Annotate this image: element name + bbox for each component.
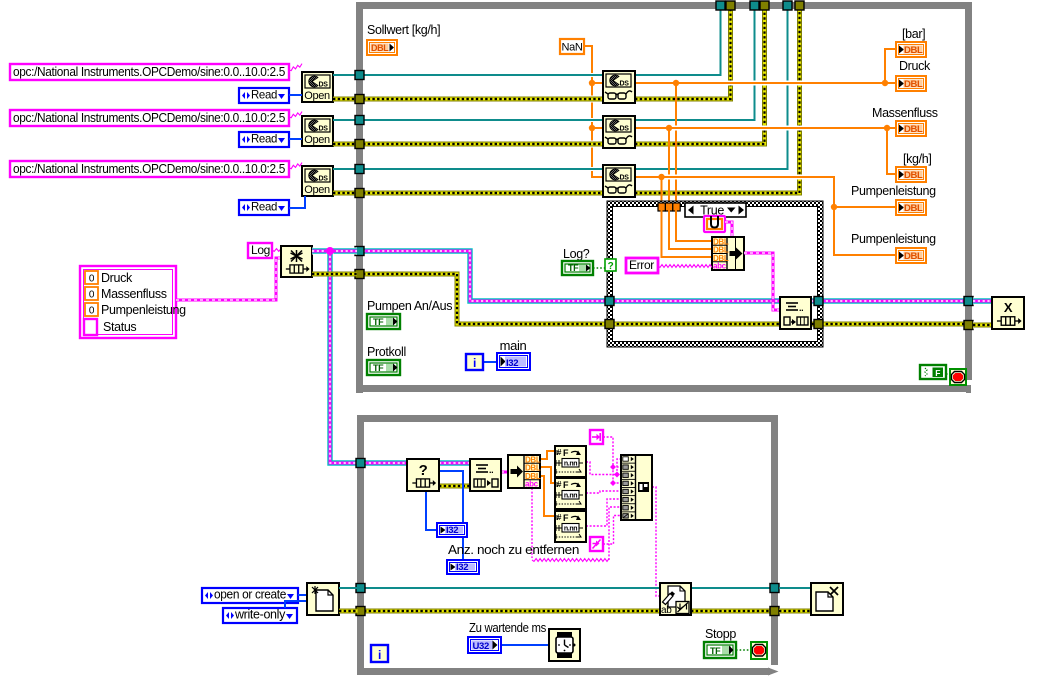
svg-text:ab: ab — [661, 605, 672, 616]
svg-text:opc:/National Instruments.OPCD: opc:/National Instruments.OPCDemo/sine:0… — [13, 111, 285, 125]
wire format3 output to concat — [586, 499, 621, 526]
unbundle by name node — [508, 455, 540, 488]
svg-text:..: .. — [799, 303, 803, 313]
svg-text:Druck: Druck — [899, 59, 931, 73]
svg-text:n.nn: n.nn — [564, 526, 577, 533]
svg-text:Protkoll: Protkoll — [367, 345, 406, 359]
svg-text:U32: U32 — [473, 641, 489, 652]
wire U constant to format node — [725, 222, 732, 237]
wire teal row C to top tunnel — [635, 9, 788, 169]
wire queue status count to I32 Anz — [439, 471, 463, 560]
case structure border — [607, 201, 823, 347]
enum constant Read1 — [239, 88, 289, 103]
svg-text:F: F — [935, 368, 940, 378]
tunnel loop1 left error from obtain queue — [355, 270, 364, 279]
iteration terminal i loop2 — [371, 645, 388, 662]
enqueue element node — [780, 297, 811, 329]
wire iteration i to main — [483, 361, 497, 363]
wire unbundle DBL1 to format1 — [540, 451, 555, 459]
cluster constant (Druck/Massenfluss/Pumpenleistung/Status) — [80, 266, 176, 338]
string constant Log — [248, 243, 272, 258]
wait ms node (clock) — [549, 629, 580, 661]
TF control Log? — [562, 261, 593, 275]
tunnel loop1 left queue — [355, 247, 364, 256]
tunnel loop1 top teal 1 — [716, 1, 725, 10]
svg-text:open or create: open or create — [214, 588, 286, 602]
DBL indicator Pumpenleistung 2 — [896, 248, 926, 263]
wire open file error to loop2 — [339, 609, 358, 614]
svg-text:I32: I32 — [446, 525, 458, 536]
end of line constant — [590, 430, 603, 444]
enum constant Read3 — [239, 200, 289, 215]
wire cluster constant to obtain queue — [176, 258, 281, 300]
svg-text:DBL: DBL — [904, 251, 923, 262]
tunnel loop2 right file refnum — [770, 584, 779, 593]
svg-text:F: F — [563, 448, 569, 458]
svg-text:Log: Log — [251, 243, 270, 257]
format into string node (DBL DBL DBL abc) — [712, 237, 744, 270]
svg-text:Pumpenleistung: Pumpenleistung — [851, 184, 936, 198]
svg-text:0: 0 — [89, 306, 95, 317]
svg-text:n.nn: n.nn — [564, 493, 577, 500]
svg-text:Anz. noch zu entfernen: Anz. noch zu entfernen — [448, 543, 579, 557]
constant NaN — [560, 39, 584, 54]
DBL indicator [bar] — [896, 42, 926, 57]
svg-text:Read: Read — [251, 200, 277, 214]
concatenate strings node — [621, 455, 652, 520]
enum constant open or create — [202, 588, 298, 603]
queue wire inside loop1 to case structure — [363, 251, 609, 301]
TF control Protkoll — [367, 360, 400, 375]
svg-text:abc: abc — [713, 262, 727, 271]
release queue node — [992, 297, 1024, 329]
tunnel loop2 right error — [770, 607, 779, 616]
svg-text:DBL: DBL — [904, 45, 923, 56]
string constant Error — [626, 258, 658, 273]
svg-text:?: ? — [419, 462, 428, 479]
wire format1 output to concat — [586, 462, 621, 475]
tunnel loop1 top error 1 — [726, 1, 735, 10]
svg-text:DBL: DBL — [904, 79, 923, 90]
svg-text:[bar]: [bar] — [902, 27, 925, 41]
svg-text:main: main — [500, 338, 527, 353]
DBL indicator Druck — [896, 76, 926, 91]
svg-text:Massenfluss: Massenfluss — [101, 287, 167, 301]
write to text file node — [660, 583, 691, 615]
svg-text:Stopp: Stopp — [705, 627, 736, 641]
svg-text:Pumpenleistung: Pumpenleistung — [851, 232, 936, 246]
tunnel loop2 left queue — [356, 459, 365, 468]
string constant URL3 opc sine — [10, 161, 289, 177]
format string constant U — [704, 216, 725, 232]
svg-text:opc:/National Instruments.OPCD: opc:/National Instruments.OPCDemo/sine:0… — [13, 65, 285, 79]
case selector ? tunnel — [605, 259, 616, 271]
wire EOL constant to concat inputs — [603, 437, 613, 483]
svg-text:Open: Open — [304, 134, 330, 146]
wire Log? to case selector — [593, 267, 605, 269]
wire Read2 to O2 — [289, 138, 302, 140]
svg-text:..: .. — [489, 465, 493, 475]
svg-text:DS: DS — [319, 126, 329, 133]
queue wire obtain queue to loop1 and down to loop2 — [312, 248, 357, 255]
DataSocket Read node R2 — [603, 116, 635, 148]
error wire case to loop right tunnel — [821, 322, 968, 327]
open/create/replace file node — [307, 583, 339, 615]
wire teal row B to top tunnel — [635, 9, 755, 120]
tunnel loop1 left teal row B — [355, 116, 364, 125]
queue status node (?) — [407, 459, 439, 491]
svg-text:Pumpenleistung: Pumpenleistung — [101, 303, 186, 317]
wire NaN constant to DS Read default inputs — [584, 46, 603, 177]
svg-text:DS: DS — [620, 175, 630, 182]
tunnel loop1 top error 2 — [760, 1, 769, 10]
number to fractional string node F2 — [555, 478, 586, 509]
error wire inside loop1 to case structure — [363, 274, 609, 324]
tunnel loop1 left teal row C — [355, 165, 364, 174]
queue wire case to loop right tunnel — [821, 298, 968, 305]
wire O3 error out — [333, 191, 357, 196]
wire URL1 to O1 (squiggle) — [289, 64, 302, 71]
svg-text:Sollwert [kg/h]: Sollwert [kg/h] — [367, 23, 440, 37]
wire URL3 to O3 (squiggle) — [289, 163, 302, 169]
wire open or create to open file node — [298, 594, 307, 596]
wire loop2 right tunnels to close file — [779, 587, 811, 589]
loop stop terminal (red stop sign) — [950, 369, 966, 385]
tunnel loop2 left file refnum — [356, 584, 365, 593]
svg-text:i: i — [378, 648, 381, 662]
wire error row A inside loop — [585, 96, 603, 103]
string constant URL1 opc sine — [10, 64, 289, 80]
I32 indicator main — [497, 353, 530, 370]
wire O3 connection out (teal) — [333, 168, 357, 170]
wire format node output to enqueue — [744, 253, 780, 310]
DataSocket Open node O2 — [302, 116, 333, 146]
wire unbundle DBL3 to format3 — [540, 476, 555, 516]
svg-text:DS: DS — [620, 81, 630, 88]
wire O2 error out — [333, 142, 357, 147]
svg-text:0: 0 — [89, 274, 95, 285]
svg-text:X: X — [1004, 300, 1013, 315]
wire concat output to write file — [652, 487, 660, 596]
wire teal connection row A inside loop — [585, 73, 603, 77]
wire O2 connection out (teal) — [333, 119, 357, 121]
tunnel loop1 left error row A — [355, 95, 364, 104]
DataSocket Read node R3 — [603, 165, 635, 197]
wire format2 output to concat — [586, 491, 621, 493]
wire teal row A to top tunnel — [635, 9, 721, 75]
DBL indicator [kg/h] — [896, 167, 926, 182]
wire DS Read1 value branch down to case tunnel — [675, 83, 677, 204]
svg-text:0: 0 — [89, 290, 95, 301]
svg-text:TF: TF — [373, 317, 384, 327]
wire dequeue element to unbundle — [501, 471, 508, 474]
svg-text:Error: Error — [629, 258, 654, 272]
wire error row A to top tunnel — [635, 9, 731, 99]
svg-text:F: F — [563, 513, 569, 523]
wire teal connection row C inside loop — [585, 167, 603, 171]
wire write-only to open file node — [285, 601, 307, 608]
wire F constant to stop terminal — [946, 373, 950, 375]
tunnel loop1 top teal 2 — [750, 1, 759, 10]
svg-text:DBL: DBL — [904, 203, 923, 214]
svg-text:abc: abc — [525, 480, 539, 489]
tunnel loop1 top error 3 — [795, 1, 804, 10]
error wire obtain queue to loop1 — [312, 272, 357, 277]
tunnel loop1 top teal 3 — [783, 1, 792, 10]
wire O1 error out — [333, 97, 357, 102]
svg-text:Status: Status — [103, 320, 136, 334]
I32 indicator (queue count) — [437, 523, 467, 537]
svg-text:F: F — [563, 480, 569, 490]
tab constant — [590, 537, 603, 551]
svg-text:?: ? — [608, 261, 614, 272]
while loop 1 border (main loop) — [356, 2, 363, 393]
svg-text:NaN: NaN — [562, 42, 583, 54]
svg-text:i: i — [473, 356, 476, 370]
tunnel loop2 left error — [356, 607, 365, 616]
svg-text:TF: TF — [373, 363, 384, 373]
DBL control Sollwert — [367, 40, 397, 55]
wire open file refnum to loop2 — [339, 587, 358, 589]
TF control Stopp — [704, 642, 736, 658]
svg-text:Massenfluss: Massenfluss — [872, 106, 938, 120]
U32 control Zu wartende ms — [468, 637, 501, 653]
DBL indicator Pumpenleistung 1 — [896, 200, 926, 215]
svg-text:n.nn: n.nn — [564, 461, 577, 468]
wire DS Read3 value to Pumpenleistung indicators — [635, 177, 896, 255]
dequeue element node — [470, 459, 501, 491]
obtain queue node — [281, 246, 312, 277]
svg-text:DBL: DBL — [904, 124, 923, 135]
wire queue status count to I32 — [426, 491, 437, 530]
case selector label True — [685, 203, 746, 217]
while loop 2 border — [357, 415, 364, 675]
error wire queue status to dequeue — [439, 484, 470, 489]
wire error row B inside loop — [585, 141, 603, 148]
DataSocket Open node O3 — [302, 166, 333, 196]
wire error row C to top tunnel — [635, 9, 800, 193]
wire Read1 to O1 — [289, 94, 302, 96]
svg-text:DBL: DBL — [371, 43, 389, 53]
TF control Pumpen An/Aus — [367, 314, 400, 329]
case orange tunnels (3) — [658, 203, 665, 211]
wire loop1 right tunnels to release queue — [973, 298, 992, 305]
I32 indicator Anz. noch zu entfernen — [447, 560, 479, 574]
svg-text:Druck: Druck — [101, 271, 133, 285]
number to fractional string node F3 — [555, 511, 586, 542]
wire DS Read2 value branch down to case tunnel — [668, 128, 670, 204]
svg-text:Open: Open — [304, 184, 330, 196]
svg-text:DS: DS — [319, 82, 329, 89]
wire DS Read2 value to Massenfluss/[kg/h] indicators — [635, 126, 896, 131]
wire O1 connection out (teal) — [333, 74, 357, 76]
wire tab constant to concat — [603, 516, 621, 545]
wire Log to obtain queue (squiggle) — [272, 249, 281, 252]
tunnel loop1 right error — [964, 321, 973, 330]
string constant URL2 opc sine — [10, 110, 289, 126]
svg-text:write-only: write-only — [234, 608, 286, 622]
svg-text:DS: DS — [319, 176, 329, 183]
wire Read3 to O3 — [289, 196, 305, 208]
case error tunnels — [605, 320, 614, 329]
svg-text:Read: Read — [251, 88, 277, 102]
boolean False constant — [920, 365, 946, 379]
wire Error constant to format node (squiggle) — [658, 265, 712, 268]
enum constant write-only — [223, 608, 297, 623]
wires orange tunnels to format node inside case — [676, 210, 712, 241]
tunnel loop1 left error row B — [355, 140, 364, 149]
tunnel loop1 right queue — [964, 297, 973, 306]
wire U32 to wait ms — [501, 644, 549, 646]
tunnel loop1 left error row C — [355, 189, 364, 198]
queue wire inside case to enqueue — [612, 298, 780, 305]
DBL indicator Massenfluss — [896, 121, 926, 136]
error wire inside loop2 — [364, 609, 660, 614]
svg-text:DS: DS — [620, 126, 630, 133]
svg-text:Zu wartende ms: Zu wartende ms — [469, 621, 546, 635]
wire unbundle abc string down and right (squiggle) — [531, 488, 533, 558]
close file node — [811, 583, 843, 615]
wire DS Read1 value to Druck/[bar] indicators — [635, 81, 896, 86]
case queue tunnels — [605, 297, 614, 306]
number to fractional string node F1 — [555, 446, 586, 477]
svg-text:DBL: DBL — [904, 170, 923, 181]
iteration terminal i loop1 — [466, 354, 483, 370]
wire error row C inside loop — [363, 191, 603, 196]
teal file refnum wire inside loop2 — [364, 587, 660, 589]
DataSocket Read node R1 — [603, 71, 635, 103]
DataSocket Open node O1 — [302, 72, 333, 102]
wire unbundle DBL2 to format2 — [540, 467, 555, 483]
svg-text:TF: TF — [568, 263, 579, 273]
svg-text:I32: I32 — [506, 358, 518, 369]
enum constant Read2 — [239, 132, 289, 147]
svg-text:Log?: Log? — [563, 247, 590, 261]
error wire inside case to enqueue — [612, 322, 780, 327]
wire teal connection row B inside loop — [585, 118, 603, 122]
svg-text:Read: Read — [251, 132, 277, 146]
wire URL2 to O2 (squiggle) — [289, 112, 302, 118]
wire DS Read3 value branch down to case tunnel — [661, 177, 663, 204]
svg-text:Pumpen An/Aus: Pumpen An/Aus — [367, 299, 452, 313]
wire NaN stubs to DS Read inputs — [592, 82, 603, 84]
wire error row B to top tunnel — [635, 9, 765, 144]
wire Stopp to loop stop terminal — [736, 649, 751, 651]
svg-text:opc:/National Instruments.OPCD: opc:/National Instruments.OPCDemo/sine:0… — [13, 162, 285, 176]
svg-text:TF: TF — [710, 646, 721, 656]
loop2 stop terminal (red stop sign) — [751, 642, 767, 659]
queue wire inside loop2 — [364, 460, 407, 467]
svg-text:Open: Open — [304, 90, 330, 102]
svg-text:I32: I32 — [456, 562, 468, 573]
tunnel loop1 left teal row A — [355, 71, 364, 80]
svg-text:[kg/h]: [kg/h] — [903, 152, 931, 166]
